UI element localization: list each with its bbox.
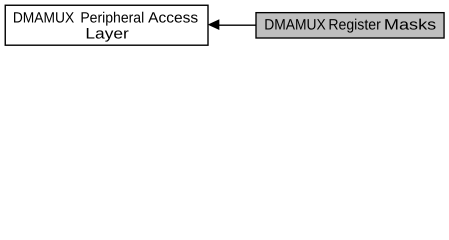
node box (gray): DMAMUX Register Masks: [256, 13, 444, 38]
svg-text:Peripheral: Peripheral: [80, 10, 144, 26]
svg-text:Access: Access: [148, 10, 198, 26]
svg-text:Masks: Masks: [384, 17, 436, 34]
svg-text:DMAMUX: DMAMUX: [13, 10, 74, 26]
svg-text:Layer: Layer: [85, 26, 128, 43]
edge arrowhead: [209, 20, 219, 29]
svg-text:Register: Register: [328, 17, 380, 34]
node box: DMAMUX Peripheral Access Layer: [5, 5, 208, 45]
background: [0, 0, 449, 51]
svg-text:DMAMUX: DMAMUX: [264, 17, 325, 34]
edge arrow shaft: [218, 24, 256, 26]
